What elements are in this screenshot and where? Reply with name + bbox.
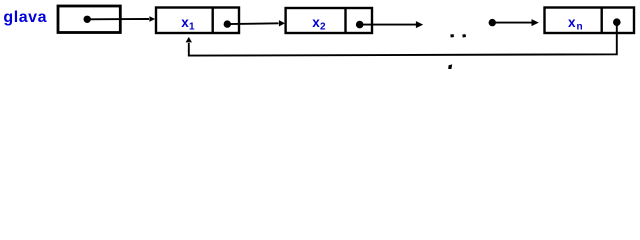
svg-text:x: x xyxy=(181,15,189,30)
svg-text:glava: glava xyxy=(3,9,47,26)
svg-text:n: n xyxy=(577,21,583,32)
svg-text:1: 1 xyxy=(189,21,195,32)
svg-text:2: 2 xyxy=(320,22,326,33)
svg-text:x: x xyxy=(568,15,576,30)
svg-text:x: x xyxy=(312,15,320,30)
